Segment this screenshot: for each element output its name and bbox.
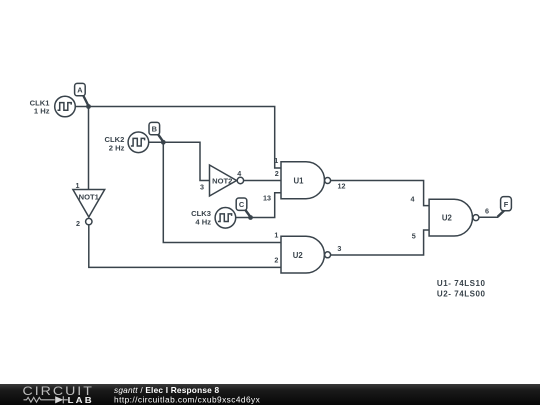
svg-text:U1: U1 [294,176,305,185]
pin 4 of NOT2 [237,169,241,178]
pin 13 of U1 [263,194,271,203]
pin 1 of NOT1 [76,181,80,190]
svg-text:NOT1: NOT1 [79,193,100,202]
NAND gate U1 (74LS10) [281,162,331,199]
svg-text:LAB: LAB [68,396,94,405]
wire NOT2 output to U1 pin2 [243,180,281,182]
inverter NOT1 [73,190,105,225]
wire net A horizontal to U1 pin1 corner [89,107,282,169]
svg-text:2: 2 [76,219,80,228]
CircuitLab logo wordmark [23,384,94,398]
wire net A down to NOT1 input [88,107,90,190]
clock source CLK3 [215,208,236,229]
NAND gate U2 lower (74LS00) [281,236,331,273]
annotation IC part numbers [437,279,486,298]
pin 5 of U2 right [412,232,416,241]
svg-text:F: F [504,200,509,209]
svg-text:1: 1 [274,156,278,165]
junction node B [161,140,166,145]
svg-text:NOT2: NOT2 [212,177,232,186]
svg-text:U1- 74LS10: U1- 74LS10 [437,279,486,288]
NAND gate U2 right (74LS00) [429,199,479,236]
svg-text:6: 6 [485,207,489,216]
svg-text:U2- 74LS00: U2- 74LS00 [437,289,486,298]
junction node C [248,215,253,220]
svg-text:4 Hz: 4 Hz [195,218,211,227]
svg-text:3: 3 [337,244,341,253]
svg-text:12: 12 [338,182,346,191]
label CLK1 value [30,98,51,115]
wire CLK2 output right to NOT2 input [149,142,210,180]
svg-text:1 Hz: 1 Hz [34,107,50,116]
svg-text:U2: U2 [293,251,304,260]
pin 6 of U2 right [485,207,489,216]
svg-text:U2: U2 [442,214,453,223]
pin 2 of NOT1 [76,219,80,228]
wire CLK3 output right and up to U1 pin13 [236,193,281,218]
node flag F [498,197,512,217]
label CLK3 value [191,209,211,226]
label CLK2 value [105,135,125,152]
node flag B [149,122,163,141]
svg-text:2: 2 [275,169,279,178]
pin 2 of U2 lower [274,256,278,265]
footer bar [0,384,540,405]
svg-text:C: C [239,200,245,209]
pin 2 of U1 [275,169,279,178]
wire CLK1 output to node A junction [76,106,89,108]
pin 1 of U1 [274,156,278,165]
clock source CLK1 [55,96,76,117]
svg-text:2 Hz: 2 Hz [109,143,125,152]
CircuitLab logo resistor and diode glyph [24,396,68,403]
svg-text:1: 1 [76,181,80,190]
CircuitLab logo LAB text [68,396,94,405]
clock source CLK2 [128,132,149,153]
wire U2 output to right-U2 pin5 [331,230,430,255]
svg-text:http://circuitlab.com/cxub9xsc: http://circuitlab.com/cxub9xsc4d6yx [114,394,261,404]
wire net B down to U2 pin1 [163,142,281,242]
svg-text:13: 13 [263,194,271,203]
pin 4 of U2 right [411,195,415,204]
svg-text:A: A [77,86,83,95]
svg-text:2: 2 [274,256,278,265]
pin 12 of U1 [338,182,346,191]
pin 3 of U2 lower [337,244,341,253]
svg-text:5: 5 [412,232,416,241]
footer title text [114,385,261,404]
pin 1 of U2 lower [274,231,278,240]
node flag A [75,83,89,106]
wire right-U2 output to node F [479,211,504,217]
junction node A [86,104,91,109]
node flag C [236,198,250,217]
svg-text:3: 3 [200,183,204,192]
svg-text:4: 4 [237,169,241,178]
svg-text:4: 4 [411,195,415,204]
wire NOT1 output down and right to U2 pin2 [89,225,281,268]
inverter NOT2 [210,165,244,196]
svg-text:1: 1 [274,231,278,240]
pin 3 of NOT2 [200,183,204,192]
wire U1 output to right-U2 pin4 [331,181,430,206]
svg-text:B: B [152,125,157,134]
